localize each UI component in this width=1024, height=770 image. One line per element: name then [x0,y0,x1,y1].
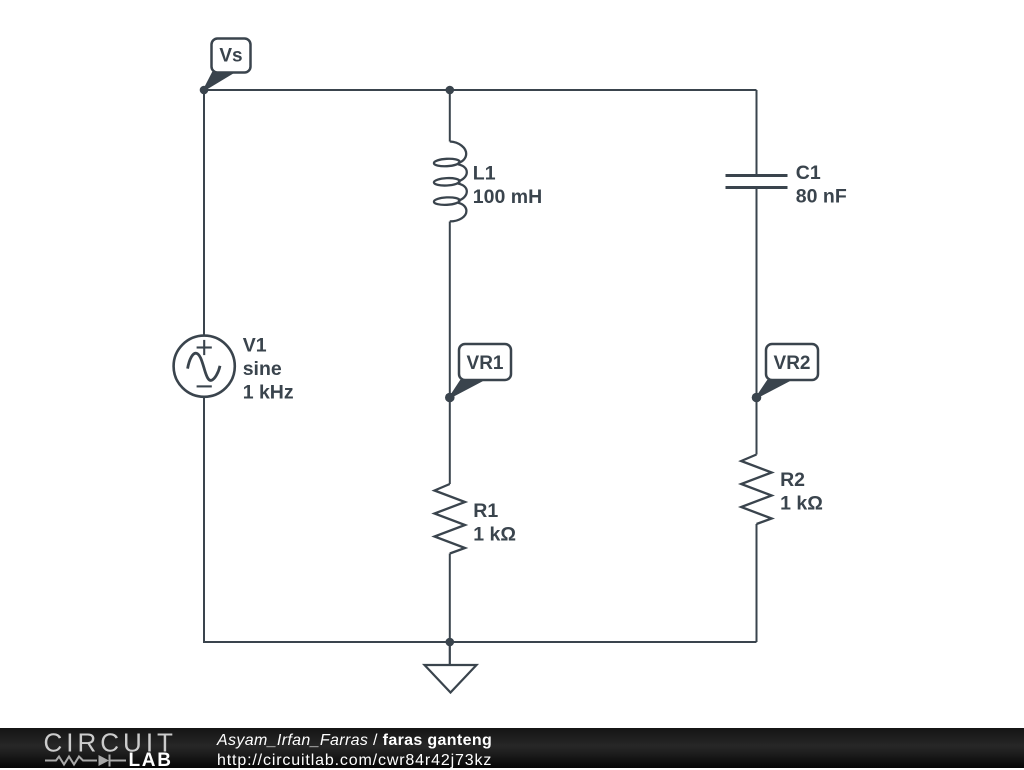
label R1 value [473,500,516,545]
wire right mid (C1 to R2, node VR2 on it) [756,188,758,455]
svg-text:V1: V1 [243,335,267,357]
node dot VR2 [752,393,762,403]
wire top net Vs [204,89,757,91]
wire right lower (R2 to bottom rail) [756,524,758,642]
CircuitLab logo [0,728,200,768]
label V1 value [243,335,294,404]
svg-text:100 mH: 100 mH [473,186,542,208]
wire right upper (top rail to C1) [756,90,758,176]
svg-text:80 nF: 80 nF [796,186,847,208]
label R2 value [780,469,823,514]
svg-text:C1: C1 [796,162,821,184]
svg-text:R2: R2 [780,469,805,491]
capacitor C1 plates [726,176,788,188]
ground [425,642,477,693]
svg-text:sine: sine [243,358,282,380]
wire left lower (V1 bottom to bottom rail) [203,396,205,643]
wire middle lower (R1 to bottom rail) [449,554,451,643]
label C1 value [796,162,847,207]
resistor R2 [741,455,772,525]
wire middle upper (top rail to L1) [449,90,451,142]
svg-text:L1: L1 [473,162,496,184]
voltage source V1 [174,336,235,397]
svg-text:VR2: VR2 [774,353,811,374]
label L1 value [473,162,542,207]
net flag VR2 [757,344,819,398]
svg-text:1 kΩ: 1 kΩ [473,523,516,545]
resistor R1 [435,484,466,554]
inductor L1 [434,142,467,222]
junction dot top middle [446,86,455,95]
svg-text:LAB: LAB [129,750,173,768]
junction dot bottom middle [446,638,455,647]
net flag Vs [204,39,251,91]
svg-text:1 kΩ: 1 kΩ [780,492,823,514]
net flag VR1 [450,344,511,398]
footer line 2: url [217,752,492,770]
node dot VR1 [445,393,455,403]
svg-text:VR1: VR1 [467,353,504,374]
footer line 1: author / title [217,732,492,750]
wire left upper (Vs node to V1 top) [203,90,205,337]
wire bottom rail [204,641,757,643]
svg-text:Vs: Vs [219,46,242,67]
wire middle mid (L1 to R1, node VR1 on it) [449,222,451,485]
svg-text:1 kHz: 1 kHz [243,381,294,403]
svg-text:R1: R1 [473,500,498,522]
node dot Vs (top-left) [200,86,209,95]
